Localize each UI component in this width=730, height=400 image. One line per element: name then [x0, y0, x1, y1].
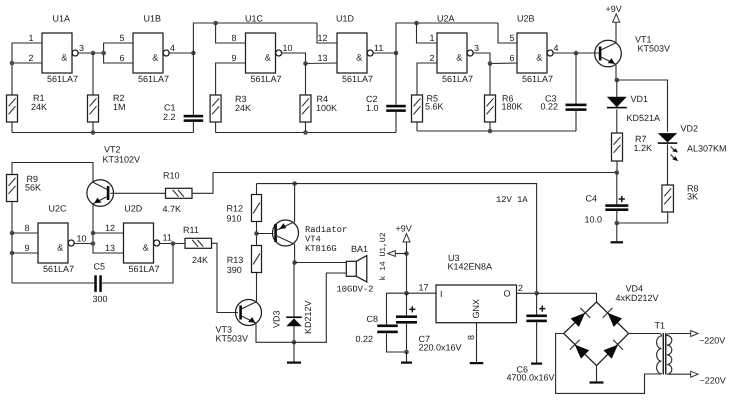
svg-text:220.0x16V: 220.0x16V [419, 343, 462, 353]
svg-text:R10: R10 [163, 171, 180, 181]
node emitter VD3 speaker [292, 340, 297, 345]
ground below bridge [590, 381, 604, 383]
svg-text:561LA7: 561LA7 [43, 264, 74, 274]
wire U1B out [168, 52, 193, 54]
capacitor C1 plates [184, 115, 204, 122]
wire C8 bottom [387, 333, 407, 352]
wire U1A out [77, 52, 103, 54]
gate U1A [42, 14, 78, 85]
wire pin2 to R5 [417, 63, 437, 95]
resistor R5 body [412, 95, 423, 122]
wire to U3 input [407, 292, 437, 294]
wire U1B out up rail [193, 23, 317, 53]
capacitor C7 plates [396, 306, 417, 323]
node C4 bottom [615, 221, 620, 226]
node C7 bottom [404, 350, 409, 355]
wire R10 to control line [192, 173, 213, 194]
speaker BA1 [346, 256, 367, 282]
svg-text:0.22: 0.22 [541, 102, 559, 112]
wire R9 bottom to gate inputs [11, 202, 13, 284]
svg-text:VD1: VD1 [631, 94, 649, 104]
node U2C pin9 [10, 251, 15, 256]
svg-text:13: 13 [105, 243, 115, 253]
wire U2B out to VT1 [552, 52, 599, 54]
capacitor C4 plates [605, 196, 628, 211]
svg-text:10.0: 10.0 [585, 215, 603, 225]
svg-text:KT503V: KT503V [638, 44, 671, 54]
wire pin9 to R3 [216, 63, 246, 95]
wire VD3 vertical [293, 263, 295, 317]
svg-text:U1D: U1D [336, 14, 355, 24]
transistor VT2 [87, 180, 114, 207]
wire pin1 from rail [417, 23, 438, 43]
wire +9V arrow stub [406, 242, 408, 254]
svg-text:KT503V: KT503V [216, 334, 249, 344]
svg-text:C5: C5 [94, 262, 106, 272]
wire U1B input loop [104, 43, 133, 63]
wire 12V rail [257, 184, 537, 294]
wire VT4 collector down [294, 244, 296, 262]
wire U1D out [372, 52, 396, 54]
wire C4 bottom stub [616, 211, 618, 223]
wire VD1 to R7 [616, 109, 618, 133]
svg-text:11: 11 [374, 43, 383, 53]
wire stage2 bottom rail [216, 132, 396, 134]
ground below C4 [611, 223, 624, 243]
svg-text:+9V: +9V [606, 4, 622, 14]
svg-text:11: 11 [163, 233, 172, 243]
wire pin5 from rail [498, 23, 517, 43]
symbol mains arrow bottom [691, 371, 698, 377]
ground below C6 [531, 363, 542, 365]
resistor R12 body [252, 195, 262, 222]
svg-text:&: & [61, 53, 67, 63]
svg-text:R12: R12 [227, 204, 244, 214]
svg-text:561LA7: 561LA7 [522, 74, 553, 84]
node U3 out [534, 291, 539, 296]
node VT4 collector [292, 260, 297, 265]
svg-text:+9V: +9V [396, 224, 412, 234]
svg-text:1: 1 [429, 33, 434, 43]
svg-text:561LA7: 561LA7 [342, 74, 373, 84]
svg-text:561LA7: 561LA7 [129, 264, 160, 274]
gate U1B [133, 14, 169, 85]
svg-text:1.0: 1.0 [366, 103, 379, 113]
capacitor C8 plates [377, 325, 398, 334]
node U2D out [171, 241, 176, 246]
wire to speaker top [295, 262, 347, 264]
svg-text:300: 300 [93, 294, 108, 304]
wire R6 bottom stub [489, 122, 491, 131]
svg-text:U2C: U2C [49, 204, 68, 214]
wire U1C out [281, 53, 337, 64]
node U1B inputs [101, 51, 106, 56]
wire stage3 bottom rail [417, 130, 576, 132]
resistor R9 body [7, 175, 18, 202]
wire R7 bottom stub [616, 161, 618, 173]
resistor R6 body [485, 95, 496, 122]
svg-text:12: 12 [105, 223, 115, 233]
wire C2 bottom stub [395, 112, 397, 133]
svg-text:17: 17 [419, 283, 429, 293]
svg-text:U1B: U1B [144, 14, 162, 24]
node VT4 emitter rail [292, 181, 297, 186]
node U1D in13 [303, 61, 308, 66]
svg-text:4: 4 [170, 43, 175, 53]
svg-text:56K: 56K [25, 183, 41, 193]
wire control line R10 to C4 node [213, 172, 617, 174]
node VT4 base [254, 231, 259, 236]
wire C3 top stub [575, 53, 577, 104]
svg-text:390: 390 [227, 265, 242, 275]
svg-text:U2A: U2A [437, 14, 455, 24]
wire U2C pin8 [12, 232, 38, 234]
wire U1A input loop [12, 43, 42, 63]
bridge rectifier VD4 [564, 302, 629, 366]
wire C7 top stub [406, 293, 408, 315]
resistor R8 body [662, 185, 674, 212]
wire VT3 collector to R13 [256, 273, 258, 303]
node U2C out [91, 241, 96, 246]
resistor R10 body [166, 188, 193, 198]
wire bridge plus to U3 node [537, 293, 597, 302]
svg-text:10: 10 [283, 43, 293, 53]
svg-text:&: & [356, 53, 362, 63]
svg-text:C4: C4 [586, 194, 598, 204]
wire U2D out to C5 [102, 244, 173, 284]
wire R11 to VT3 base [212, 243, 239, 312]
ground below VD3 [287, 342, 301, 363]
node VT2 emitter pin12 [91, 231, 96, 236]
svg-text:3: 3 [474, 43, 479, 53]
wire R4 bottom stub [305, 122, 307, 133]
wire C6 bottom stub [536, 322, 538, 362]
wire bridge right AC [629, 333, 658, 335]
svg-text:1M: 1M [113, 102, 126, 112]
svg-text:6: 6 [119, 53, 124, 63]
wire VT2 emitter down [93, 204, 124, 253]
wire U3 output [517, 292, 537, 294]
wire C1 top stub [192, 53, 194, 115]
svg-text:I: I [440, 289, 443, 299]
wire U2C pin9 [12, 252, 38, 254]
svg-text:561LA7: 561LA7 [47, 74, 78, 84]
wire R3 bottom stub [215, 122, 217, 133]
capacitor C6 plates [526, 306, 547, 323]
node R6 bottom [488, 129, 493, 134]
wire VD1 anode stub [616, 80, 618, 97]
svg-text:C8: C8 [367, 314, 379, 324]
svg-text:5: 5 [119, 33, 124, 43]
gate U1D [336, 14, 373, 85]
gate U2B [517, 14, 553, 85]
wire VD2 to R8 [667, 144, 669, 185]
wire bridge minus stub [596, 366, 598, 382]
svg-text:24K: 24K [235, 103, 251, 113]
node C4 top [615, 170, 620, 175]
svg-text:910: 910 [227, 214, 242, 224]
wire VT4 emitter up [294, 184, 296, 222]
svg-text:VT2: VT2 [104, 145, 121, 155]
svg-text:100K: 100K [316, 103, 337, 113]
svg-text:561LA7: 561LA7 [138, 74, 169, 84]
wire VT3 emitter [256, 273, 346, 342]
wire C3 bottom stub [575, 111, 577, 131]
svg-text:&: & [143, 243, 149, 253]
wire R12 top to 12V rail [256, 184, 258, 195]
wire VT2 base to R10 [111, 192, 166, 194]
diode VD3 [286, 316, 301, 326]
resistor R3 body [210, 95, 221, 122]
node U2C pin8 [10, 231, 15, 236]
wire U1D out up rail [396, 23, 498, 53]
svg-text:~220V: ~220V [699, 335, 725, 345]
svg-text:6: 6 [509, 53, 514, 63]
node rail pin1 [414, 21, 419, 26]
ground below C7 [401, 352, 412, 364]
wire R2 top stub [92, 53, 94, 95]
svg-text:R11: R11 [183, 225, 199, 235]
wire secondary top [671, 333, 691, 335]
svg-text:3K: 3K [687, 192, 698, 202]
wire VT1 emitter stub [615, 64, 617, 80]
node C3 top [574, 51, 579, 56]
wire R2 bottom stub [92, 122, 94, 133]
wire C6 top stub [536, 293, 538, 314]
svg-text:8: 8 [231, 33, 236, 43]
wire C1 bottom stub [192, 122, 194, 133]
svg-text:KD521A: KD521A [627, 113, 661, 123]
svg-text:R13: R13 [227, 255, 244, 265]
wire emitter node to VD2 branch [617, 80, 668, 132]
svg-text:&: & [57, 243, 63, 253]
wire C8 branch [387, 293, 407, 324]
gate U2D [124, 204, 160, 275]
wire U2D out [159, 243, 185, 245]
regulator U3 box [436, 285, 517, 323]
node R2 bottom [91, 130, 96, 135]
svg-text:T1: T1 [655, 321, 666, 331]
svg-text:K142EN8A: K142EN8A [448, 262, 493, 272]
svg-text:2: 2 [28, 53, 33, 63]
svg-text:1: 1 [28, 33, 33, 43]
wire R1 bottom stub [11, 122, 13, 133]
svg-text:4: 4 [554, 43, 559, 53]
node k14 tap [404, 251, 409, 256]
wire bridge left AC [556, 334, 658, 394]
resistor R2 body [88, 95, 99, 122]
wire U2C out [73, 243, 93, 245]
svg-text:13: 13 [317, 53, 327, 63]
svg-text:24K: 24K [31, 102, 47, 112]
svg-text:4xKD212V: 4xKD212V [616, 293, 659, 303]
svg-text:U2B: U2B [517, 14, 535, 24]
svg-text:8: 8 [24, 223, 29, 233]
svg-text:k 14 U1,U2: k 14 U1,U2 [379, 232, 388, 280]
svg-text:&: & [152, 53, 158, 63]
svg-text:&: & [265, 53, 271, 63]
node VT1 emitter [615, 78, 620, 83]
diode VD1 [607, 97, 627, 109]
svg-text:KD212V: KD212V [303, 300, 313, 334]
svg-text:10GDV-2: 10GDV-2 [337, 285, 374, 295]
node C7 top [404, 291, 409, 296]
wire U2A out [472, 53, 517, 64]
svg-text:561LA7: 561LA7 [442, 74, 473, 84]
node U1B output [191, 51, 196, 56]
wire pin12 from rail [317, 23, 337, 43]
svg-text:C1: C1 [164, 103, 176, 113]
node U2B in6 [488, 61, 493, 66]
wire U2D pin12 [93, 232, 124, 234]
svg-text:10: 10 [77, 234, 87, 244]
svg-text:GNX: GNX [471, 299, 481, 319]
wire +9V down to C7 node [406, 254, 408, 294]
svg-text:8: 8 [466, 335, 476, 340]
svg-text:U1A: U1A [53, 14, 71, 24]
transistor VT1 [595, 40, 622, 67]
wire C2 top stub [395, 53, 397, 105]
wire U1A in to R1 [11, 63, 13, 95]
node U1D output [394, 51, 399, 56]
svg-text:2: 2 [429, 53, 434, 63]
gate U2C [38, 204, 74, 275]
node U1A inputs [10, 61, 15, 66]
svg-text:VD4: VD4 [626, 284, 644, 294]
svg-text:9: 9 [24, 243, 29, 253]
node rail pin8 [213, 21, 218, 26]
svg-text:5: 5 [509, 33, 514, 43]
wire VT2 collector to R9 [12, 163, 93, 183]
capacitor C5 [94, 275, 102, 292]
svg-text:4700.0x16V: 4700.0x16V [507, 373, 555, 383]
wire VD3 anode down [293, 326, 295, 342]
ground below U3 [470, 362, 484, 364]
gate U2A [437, 14, 473, 85]
svg-text:VD2: VD2 [681, 124, 699, 134]
svg-text:561LA7: 561LA7 [251, 74, 282, 84]
transformer T1 [657, 333, 672, 375]
wire C7 bottom stub [406, 324, 408, 352]
symbol arrow to pin14 [388, 251, 396, 257]
symbol +9V top arrow [613, 14, 620, 22]
node R4 bottom [303, 130, 308, 135]
svg-text:KT816G: KT816G [305, 244, 337, 254]
symbol mains arrow top [691, 331, 698, 337]
gate U1C [245, 14, 282, 85]
resistor R4 body [300, 95, 311, 122]
resistor R13 body [252, 246, 262, 273]
svg-text:180K: 180K [502, 102, 523, 112]
capacitor C3 plates [566, 104, 587, 111]
wire C5 left to inputs [12, 282, 94, 284]
wire +9V to VT1 collector [615, 22, 617, 43]
svg-text:2: 2 [518, 283, 523, 293]
wire R6 top stub [489, 64, 491, 96]
wire k14 stub [395, 253, 406, 255]
wire R12 R13 to VT4 base [256, 222, 258, 246]
wire U3 gnd stub [476, 323, 478, 362]
transistor VT3 [236, 300, 262, 326]
svg-text:3: 3 [79, 43, 84, 53]
svg-text:4.7K: 4.7K [163, 204, 182, 214]
svg-text:AL307KM: AL307KM [687, 144, 727, 154]
svg-text:~220V: ~220V [700, 376, 726, 386]
wire stage1 bottom rail [12, 132, 193, 134]
wire R4 top stub [305, 64, 307, 96]
wire R8 bottom to C4 node [617, 212, 668, 223]
wire base stub VT4 [257, 233, 274, 235]
wire pin8 from rail [216, 23, 246, 43]
node R2 top [91, 51, 96, 56]
capacitor C2 plates [386, 105, 406, 112]
svg-text:VD3: VD3 [272, 310, 282, 328]
svg-text:24K: 24K [192, 255, 208, 265]
svg-text:12: 12 [317, 33, 327, 43]
svg-text:0.22: 0.22 [356, 334, 374, 344]
symbol +9V mid arrow [403, 234, 410, 242]
svg-text:U2D: U2D [124, 204, 143, 214]
svg-text:U1C: U1C [245, 14, 264, 24]
wire secondary bottom [671, 373, 691, 375]
resistor R7 body [612, 133, 623, 161]
wire C4 top stub [616, 173, 618, 205]
resistor R11 body [185, 238, 212, 248]
svg-text:KT3102V: KT3102V [103, 155, 141, 165]
svg-text:12V 1A: 12V 1A [496, 195, 528, 205]
svg-text:&: & [456, 53, 462, 63]
transistor VT4 [273, 220, 299, 246]
svg-text:O: O [504, 289, 511, 299]
svg-text:Radiator: Radiator [305, 225, 347, 235]
svg-text:&: & [536, 53, 542, 63]
svg-text:9: 9 [231, 53, 236, 63]
svg-text:2.2: 2.2 [163, 112, 176, 122]
wire R5 bottom stub [416, 122, 418, 131]
svg-text:1.2K: 1.2K [634, 143, 653, 153]
svg-text:BA1: BA1 [351, 244, 368, 254]
svg-text:5.6K: 5.6K [425, 102, 444, 112]
resistor R1 body [7, 95, 18, 122]
diode VD2 LED [658, 133, 678, 161]
